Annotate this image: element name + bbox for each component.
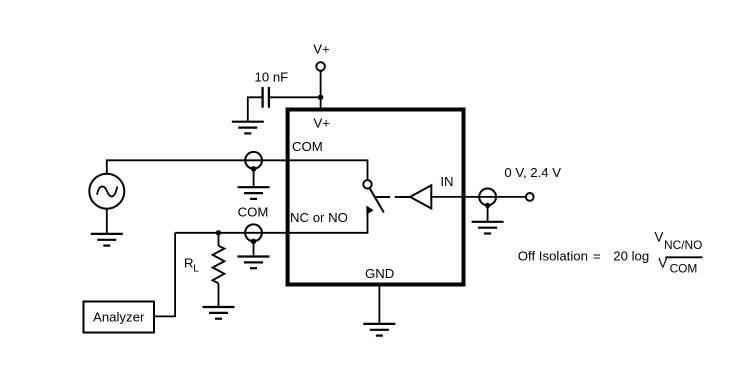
node V+ supply terminal [316,62,325,71]
wire NC/NO pin to switch throw [288,207,368,233]
switch pole contact [363,180,371,188]
ground (IN terminal shield) [472,222,504,234]
svg-text:NC or NO: NC or NO [290,210,348,225]
wire IN pin out of box [431,196,526,198]
ground (RL) [203,307,235,319]
wire capacitor to V+ junction [269,96,321,98]
ground (AC source) [91,234,123,246]
wire V+ terminal to box [320,71,322,110]
label Off Isolation formula [518,230,703,276]
switch throw arrow [366,206,373,215]
wire COM terminal to ground [253,169,255,187]
wire AC source to ground [106,209,108,234]
junction V+/decoupling [318,95,323,100]
svg-text:COM: COM [238,205,269,220]
switch arm SW1 [370,188,384,212]
switch IC body U1 [288,110,464,285]
capacitor C1 10 nF [263,87,269,108]
control line (dashed) switch to driver [375,196,410,198]
svg-text:R: R [184,256,194,271]
junction NC/NO terminal to ground [251,239,256,244]
svg-text:20 log: 20 log [613,248,649,263]
svg-text:GND: GND [365,266,394,281]
svg-text:NC/NO: NC/NO [664,238,702,252]
svg-text:=: = [593,248,601,263]
junction IN terminal to ground [485,203,490,208]
analyzer instrument [84,302,155,333]
wire IN terminal to ground [487,205,489,221]
svg-text:0 V, 2.4 V: 0 V, 2.4 V [504,165,561,180]
node NC/NO measurement terminal [245,224,262,241]
svg-text:L: L [193,264,199,275]
wire NC/NO terminal to ground [253,241,255,256]
svg-text:Analyzer: Analyzer [93,310,145,325]
resistor RL [213,233,225,307]
svg-text:V+: V+ [314,116,331,131]
node IN measurement terminal [479,189,496,206]
svg-text:COM: COM [292,139,323,154]
svg-text:Off Isolation: Off Isolation [518,248,588,263]
svg-text:V+: V+ [313,41,330,56]
svg-text:V: V [654,230,663,245]
wire capacitor to ground [248,97,263,121]
wire GND pin to ground [378,285,380,324]
ground (GND pin) [363,324,395,336]
wire AC source to COM pin [107,160,288,173]
node COM measurement terminal [245,152,262,169]
svg-text:10 nF: 10 nF [255,70,289,85]
node IN drive terminal [526,193,534,201]
junction RL tap [216,230,221,235]
wire COM pin to switch pole [288,160,368,180]
svg-text:V: V [658,255,667,270]
svg-text:COM: COM [670,262,698,276]
wire analyzer net to NC/NO pin [175,232,288,234]
driver inverter U1A [410,185,431,208]
wire analyzer to NC/NO net [155,233,175,317]
svg-text:IN: IN [440,174,453,189]
ground (NC/NO terminal shield) [238,257,270,269]
fraction bar [666,256,703,258]
AC source V1 [89,174,124,209]
ground (decoupling cap) [232,122,264,134]
junction COM terminal to ground [251,166,256,171]
ground (COM terminal shield) [238,187,270,199]
